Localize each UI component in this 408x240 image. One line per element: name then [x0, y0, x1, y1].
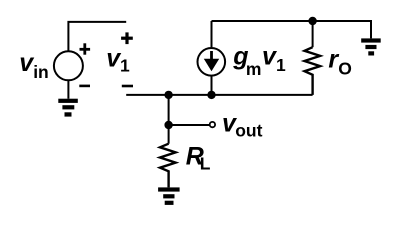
svg-text:L: L [200, 154, 211, 174]
svg-text:in: in [33, 62, 49, 82]
svg-text:out: out [235, 121, 262, 141]
svg-text:m: m [246, 59, 262, 79]
svg-text:O: O [338, 59, 352, 79]
svg-text:1: 1 [276, 55, 286, 75]
svg-text:1: 1 [120, 56, 130, 76]
